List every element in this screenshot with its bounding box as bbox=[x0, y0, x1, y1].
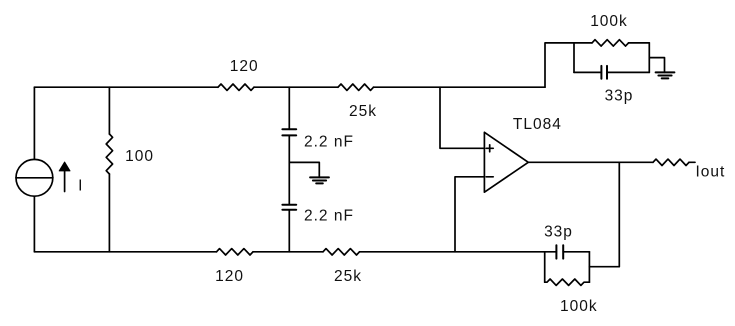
svg-text:100k: 100k bbox=[590, 13, 628, 30]
svg-text:120: 120 bbox=[230, 58, 259, 75]
wire left-bottom vertical (source to bottom rail) bbox=[33, 196, 35, 251]
wire left-top vertical (source to top rail) bbox=[33, 87, 35, 159]
svg-text:2.2 nF: 2.2 nF bbox=[304, 208, 354, 225]
svg-text:25k: 25k bbox=[349, 103, 377, 120]
svg-text:25k: 25k bbox=[334, 268, 362, 285]
resistor 25k (top) bbox=[338, 84, 377, 120]
wire output junction down bbox=[589, 162, 619, 266]
wire bottom rail segment 1 bbox=[34, 251, 216, 253]
wire ground tap bbox=[289, 162, 319, 177]
svg-text:I: I bbox=[78, 178, 83, 195]
capacitor 33p (bottom feedback) bbox=[544, 223, 589, 258]
resistor 100k (top feedback) bbox=[574, 13, 649, 46]
current source I bbox=[16, 159, 83, 196]
ground (middle) bbox=[310, 177, 329, 183]
wire top feedback to ground bbox=[649, 58, 664, 73]
wire top feedback box right edge bbox=[648, 43, 650, 73]
wire inverting input (bottom rail junction up to op-amp -) bbox=[455, 177, 484, 252]
svg-text:33p: 33p bbox=[544, 223, 573, 240]
wire bottom feedback box left edge bbox=[544, 252, 546, 282]
op-amp U1 TL084 bbox=[484, 116, 561, 192]
capacitor 2.2 nF (upper) bbox=[282, 129, 354, 150]
wire bottom feedback box right edge bbox=[588, 252, 590, 282]
wire top rail segment 1 bbox=[34, 86, 218, 88]
svg-text:100: 100 bbox=[125, 148, 154, 165]
resistor 100k (bottom feedback) bbox=[545, 279, 598, 315]
wire bottom rail segment 2 bbox=[253, 251, 323, 253]
svg-text:33p: 33p bbox=[605, 87, 634, 104]
ground (top right) bbox=[656, 72, 675, 78]
capacitor 2.2 nF (lower) bbox=[282, 205, 354, 225]
wire middle branch between capacitors bbox=[288, 135, 290, 204]
svg-text:Iout: Iout bbox=[696, 163, 726, 180]
wire top rail segment 2 bbox=[254, 86, 338, 88]
resistor 25k (bottom) bbox=[323, 249, 362, 285]
wire top feedback riser bbox=[545, 43, 574, 87]
wire top rail segment 3 bbox=[374, 86, 546, 88]
svg-text:TL084: TL084 bbox=[513, 116, 562, 133]
wire output rail bbox=[528, 161, 653, 163]
resistor Iout sense bbox=[653, 159, 725, 180]
resistor 120 (top) bbox=[218, 58, 259, 90]
resistor 100 (shunt) bbox=[106, 87, 154, 252]
wire middle branch lower (C2 to bottom rail) bbox=[288, 210, 290, 252]
wire noninverting input (top rail junction down to op-amp +) bbox=[440, 87, 484, 148]
wire middle branch upper (top rail to C1) bbox=[288, 87, 290, 129]
svg-text:100k: 100k bbox=[560, 298, 598, 315]
capacitor 33p (top feedback) bbox=[574, 66, 649, 105]
svg-text:2.2 nF: 2.2 nF bbox=[304, 133, 354, 150]
wire bottom rail segment 3 bbox=[360, 251, 545, 253]
svg-text:120: 120 bbox=[215, 268, 244, 285]
resistor 120 (bottom) bbox=[215, 249, 253, 285]
wire top feedback box left edge bbox=[573, 43, 575, 73]
